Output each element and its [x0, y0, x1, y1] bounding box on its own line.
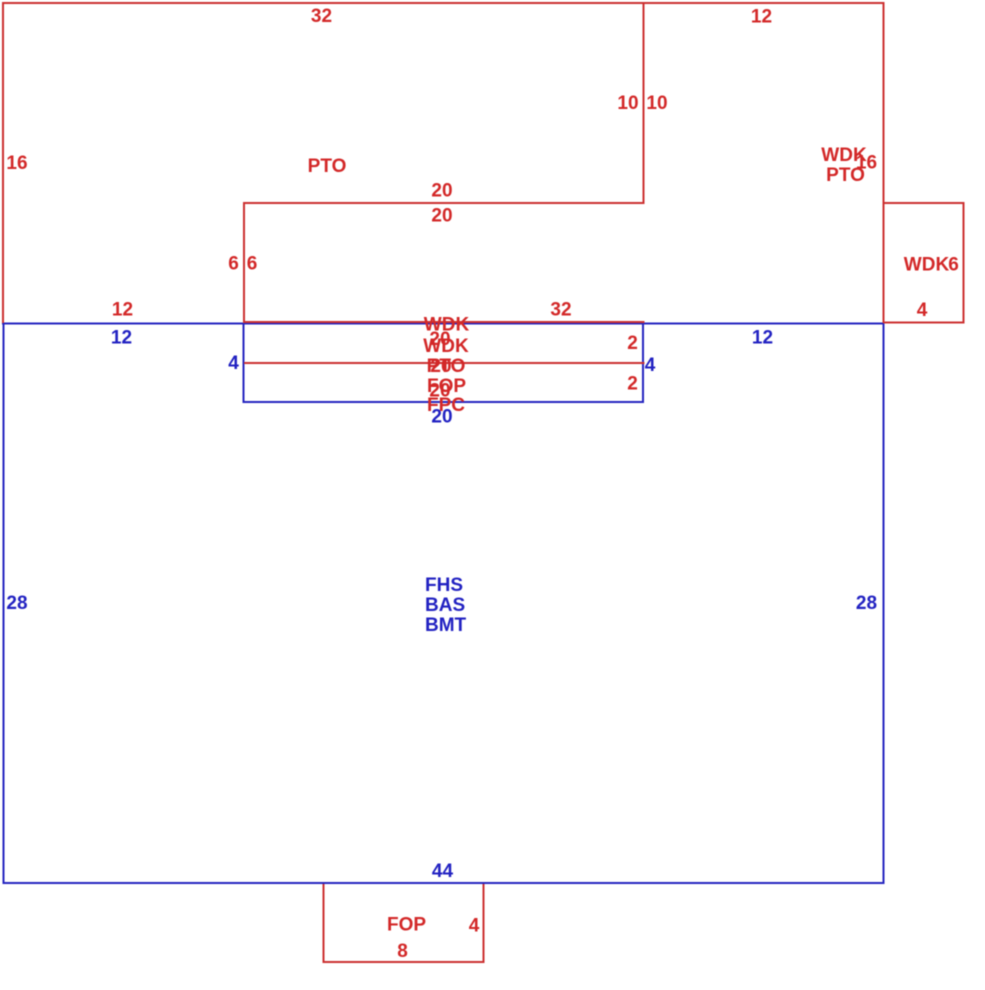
svg-text:BAS: BAS [425, 595, 465, 616]
wire: red WDK rect top wall [884, 202, 965, 204]
wire: blue top wall [2, 323, 885, 325]
svg-text:2: 2 [627, 374, 638, 395]
wire: blue bottom wall [3, 882, 885, 884]
wire: red strip mid wall [244, 362, 645, 364]
wire: red horizontal wall y203 [244, 202, 645, 204]
wire: red vertical wall x244 [243, 202, 245, 323]
svg-text:PTO: PTO [308, 156, 347, 177]
svg-text:28: 28 [856, 593, 877, 614]
blue first-floor outline [2, 323, 885, 885]
wire: red FOP porch bottom wall [323, 961, 485, 963]
svg-text:44: 44 [432, 861, 454, 882]
wire: blue left wall [3, 323, 5, 885]
svg-text:32: 32 [550, 300, 571, 321]
wire: blue inner rect bottom wall [243, 401, 645, 403]
wire: blue right wall [883, 323, 885, 885]
svg-text:28: 28 [6, 593, 27, 614]
svg-text:4: 4 [469, 916, 480, 937]
svg-text:WDK: WDK [423, 336, 469, 357]
wire: red FOP porch right wall [483, 884, 485, 963]
svg-text:20: 20 [431, 206, 452, 227]
wire: red mid vertical wall [643, 2, 645, 203]
svg-text:4: 4 [645, 355, 656, 376]
svg-text:BMT: BMT [425, 615, 467, 636]
svg-text:32: 32 [311, 6, 332, 27]
wire: red strip top wall [244, 321, 645, 323]
svg-text:6: 6 [247, 254, 258, 275]
svg-text:12: 12 [752, 328, 773, 349]
svg-text:12: 12 [112, 300, 133, 321]
svg-text:20: 20 [431, 181, 452, 202]
svg-text:PTO: PTO [826, 165, 865, 186]
wire: red left wall [2, 2, 4, 323]
wire: red WDK rect right wall [963, 202, 965, 324]
svg-text:2: 2 [627, 333, 638, 354]
wire: red FOP porch left wall [323, 884, 325, 963]
svg-text:FOP: FOP [387, 915, 426, 936]
svg-text:16: 16 [6, 153, 27, 174]
wire: red top wall [2, 2, 885, 4]
svg-text:20: 20 [431, 407, 452, 428]
wire: blue inner rect left wall [243, 324, 245, 404]
wire: blue inner rect right wall [642, 324, 644, 404]
svg-text:6: 6 [948, 255, 959, 276]
svg-text:8: 8 [397, 941, 408, 962]
svg-text:12: 12 [111, 328, 132, 349]
svg-text:FHS: FHS [425, 575, 463, 596]
blue labels [6, 328, 877, 883]
svg-text:10: 10 [646, 93, 667, 114]
svg-text:WDK: WDK [904, 255, 950, 276]
svg-text:6: 6 [228, 254, 239, 275]
wire: red WDK rect bottom wall [884, 322, 965, 324]
svg-text:4: 4 [917, 300, 928, 321]
svg-text:12: 12 [751, 7, 772, 28]
svg-text:20: 20 [430, 356, 451, 377]
wire: red right wall [883, 2, 885, 323]
svg-text:4: 4 [228, 353, 239, 374]
svg-text:10: 10 [617, 93, 638, 114]
